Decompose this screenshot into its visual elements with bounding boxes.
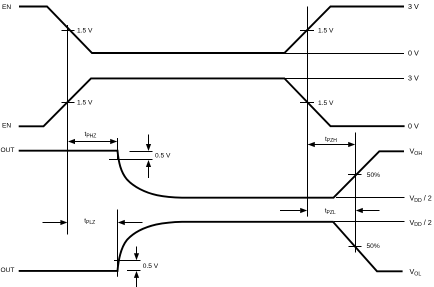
svg-text:OUT: OUT <box>1 147 15 154</box>
node 1.5V tick EN1 rising edge <box>300 30 314 32</box>
svg-text:0 V: 0 V <box>408 49 419 58</box>
arrow up to 0.5V tick (OUT1) <box>148 165 150 178</box>
wire vertical cursor B (lower segment, at OUT2 high-Z start) <box>117 210 119 277</box>
wire OUT1 waveform: driven high, decay to Vdd/2, rise to VOH <box>19 151 404 198</box>
svg-text:OUT: OUT <box>1 267 15 274</box>
arrow up to 0.5V tick (OUT2) <box>136 276 138 287</box>
svg-text:50%: 50% <box>367 172 380 179</box>
wire Vdd/2 reference line (thin, OUT2) <box>334 221 405 223</box>
arrow down to 0.5V tick (OUT2) <box>136 247 138 256</box>
svg-text:EN: EN <box>2 122 11 129</box>
wire EN1 waveform (high, fall, low, rise, high) <box>19 7 404 54</box>
node 1.5V tick EN2 falling edge <box>300 102 314 104</box>
svg-text:3 V: 3 V <box>408 73 419 82</box>
arrow down to 0.5V tick (OUT1) <box>148 135 150 146</box>
svg-text:1.5 V: 1.5 V <box>318 28 334 35</box>
wire 3V reference line (thin, EN2) <box>285 78 404 80</box>
node 0.5V tick lower (OUT2) <box>127 270 141 272</box>
node 0.5V tick upper (OUT1) <box>130 151 153 153</box>
svg-text:3 V: 3 V <box>408 2 419 11</box>
node 50% tick OUT2 fall <box>349 246 362 248</box>
svg-text:EN: EN <box>2 4 11 11</box>
svg-text:50%: 50% <box>367 243 380 250</box>
wire Vdd/2 reference line (thin, OUT1) <box>336 197 405 199</box>
svg-text:1.5 V: 1.5 V <box>318 100 334 107</box>
node 1.5V tick EN2 rising edge <box>62 102 75 104</box>
wire EN2 waveform (low, rise, high, fall, low) <box>19 78 405 126</box>
svg-text:1.5 V: 1.5 V <box>77 28 93 35</box>
wire vertical cursor A from EN1 falling-edge crossing <box>67 25 69 235</box>
node 0.5V tick upper (OUT2) <box>114 260 141 262</box>
wire OUT2 waveform: driven low, rise to Vdd/2, fall to VOL <box>19 222 403 271</box>
svg-text:0 V: 0 V <box>408 121 419 130</box>
node 1.5V tick EN1 falling edge <box>62 30 75 32</box>
node 50% tick OUT1 rise <box>348 174 362 176</box>
svg-text:1.5 V: 1.5 V <box>77 99 93 106</box>
svg-text:0.5 V: 0.5 V <box>155 153 171 160</box>
svg-text:0.5 V: 0.5 V <box>143 263 159 270</box>
wire vertical cursor C from EN1 top level down <box>307 7 309 217</box>
wire 0V reference line (thin, EN1) <box>285 53 404 55</box>
wire vertical cursor B (upper segment, at OUT1 high-Z start) <box>117 138 119 160</box>
node 0.5V tick lower (OUT1) <box>109 159 153 161</box>
wire vertical cursor D (through 50% crossings) <box>355 133 357 253</box>
